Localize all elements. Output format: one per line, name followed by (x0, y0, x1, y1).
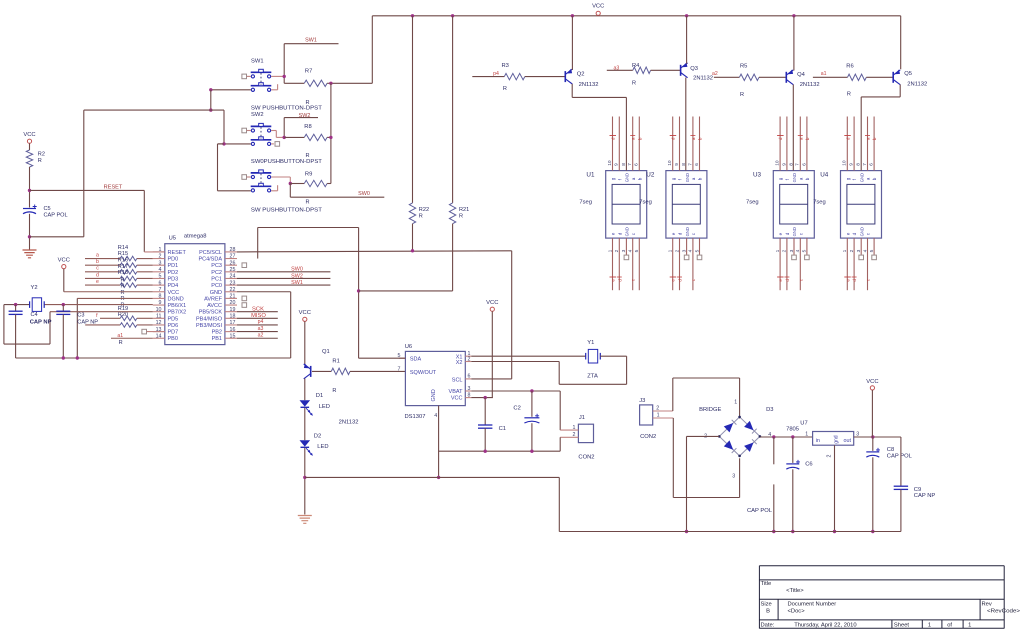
svg-text:R: R (503, 86, 507, 92)
svg-text:R: R (740, 92, 744, 98)
svg-text:U5: U5 (169, 235, 176, 241)
svg-text:Y2: Y2 (31, 285, 38, 291)
svg-text:1: 1 (805, 432, 808, 438)
svg-text:PC1: PC1 (211, 276, 222, 282)
svg-text:25: 25 (230, 267, 236, 273)
svg-text:R2: R2 (38, 151, 45, 157)
svg-text:2: 2 (656, 405, 659, 411)
svg-text:SW0: SW0 (358, 191, 370, 197)
svg-text:7: 7 (862, 163, 868, 166)
svg-text:SW1: SW1 (291, 280, 303, 286)
svg-text:Thursday, April 22, 2010: Thursday, April 22, 2010 (794, 623, 856, 629)
svg-text:8: 8 (468, 392, 471, 398)
svg-text:PC5/SCL: PC5/SCL (199, 250, 222, 256)
svg-text:4: 4 (159, 267, 162, 273)
svg-text:CAP POL: CAP POL (887, 454, 913, 460)
svg-text:d: d (678, 232, 683, 235)
svg-text:2N1132: 2N1132 (907, 82, 927, 88)
svg-text:GND: GND (431, 389, 437, 401)
svg-text:PD1: PD1 (168, 263, 179, 269)
svg-text:SCK: SCK (252, 306, 264, 312)
svg-text:GND: GND (210, 290, 222, 296)
svg-text:PB3/MOSI: PB3/MOSI (196, 323, 222, 329)
svg-text:p4: p4 (258, 319, 264, 325)
svg-text:d: d (778, 137, 783, 140)
svg-text:Title: Title (761, 581, 772, 587)
svg-text:b: b (805, 137, 810, 140)
svg-text:SCL: SCL (452, 377, 463, 383)
svg-text:SW1: SW1 (305, 38, 317, 44)
svg-text:R21: R21 (459, 207, 469, 213)
svg-text:a2: a2 (258, 332, 264, 338)
svg-text:SQW/OUT: SQW/OUT (410, 370, 437, 376)
svg-text:4: 4 (434, 413, 437, 419)
svg-text:b: b (698, 177, 703, 180)
svg-text:2: 2 (468, 356, 471, 362)
svg-text:b: b (872, 177, 877, 180)
svg-text:AVREF: AVREF (204, 296, 223, 302)
svg-text:7: 7 (687, 163, 693, 166)
svg-text:VCC: VCC (866, 379, 878, 385)
svg-text:b: b (698, 137, 703, 140)
svg-text:R15: R15 (118, 251, 128, 257)
svg-text:d: d (671, 137, 676, 140)
svg-text:GND: GND (792, 173, 797, 182)
svg-text:C3: C3 (77, 312, 84, 318)
svg-text:d: d (96, 272, 99, 278)
svg-text:C6: C6 (805, 462, 812, 468)
svg-text:12: 12 (156, 320, 162, 326)
svg-text:in: in (816, 438, 820, 444)
svg-text:U3: U3 (753, 172, 762, 179)
svg-text:U2: U2 (646, 172, 655, 179)
svg-text:3: 3 (732, 474, 735, 480)
svg-text:D1: D1 (316, 393, 323, 399)
svg-text:1: 1 (159, 247, 162, 253)
svg-text:d: d (617, 279, 622, 282)
svg-text:R7: R7 (305, 69, 312, 75)
svg-text:7: 7 (398, 366, 401, 372)
svg-text:9: 9 (614, 163, 620, 166)
svg-text:a1: a1 (821, 71, 827, 77)
svg-text:BRIDGE: BRIDGE (699, 407, 721, 413)
svg-text:R: R (847, 92, 851, 98)
svg-text:6: 6 (468, 374, 471, 380)
svg-text:of: of (947, 623, 952, 629)
svg-text:VCC: VCC (592, 4, 604, 10)
svg-text:PD7: PD7 (168, 330, 179, 336)
svg-text:Size: Size (761, 601, 772, 607)
svg-text:PC3: PC3 (211, 263, 222, 269)
svg-text:atmega8: atmega8 (184, 233, 207, 239)
svg-text:Y1: Y1 (587, 340, 594, 346)
svg-text:15: 15 (230, 333, 236, 339)
svg-text:R22: R22 (419, 207, 429, 213)
svg-text:18: 18 (230, 314, 236, 320)
svg-text:D2: D2 (314, 433, 321, 439)
svg-text:9: 9 (781, 163, 787, 166)
svg-text:Date:: Date: (761, 623, 775, 629)
svg-text:R: R (121, 284, 125, 290)
svg-text:Q2: Q2 (577, 71, 585, 77)
svg-text:5: 5 (159, 274, 162, 280)
svg-text:e: e (845, 279, 850, 282)
svg-text:R14: R14 (118, 245, 128, 251)
svg-text:CAP NP: CAP NP (30, 320, 52, 326)
svg-text:LED: LED (317, 444, 328, 450)
svg-text:7seg: 7seg (813, 199, 826, 205)
svg-text:PB7/X2: PB7/X2 (168, 310, 187, 316)
svg-text:g: g (611, 177, 616, 180)
svg-text:J1: J1 (579, 415, 585, 421)
svg-text:R5: R5 (740, 64, 747, 70)
svg-text:<Title>: <Title> (786, 588, 804, 594)
svg-text:R: R (306, 200, 310, 206)
svg-text:PC0: PC0 (211, 283, 222, 289)
svg-text:a: a (691, 177, 696, 180)
svg-text:7: 7 (159, 287, 162, 293)
svg-text:7seg: 7seg (746, 199, 759, 205)
svg-text:a: a (798, 137, 803, 140)
svg-text:GND: GND (685, 173, 690, 182)
svg-text:b: b (805, 177, 810, 180)
svg-text:Document Number: Document Number (788, 601, 837, 607)
svg-text:b: b (872, 137, 877, 140)
svg-text:28: 28 (230, 247, 236, 253)
svg-text:B: B (766, 608, 770, 614)
svg-text:e: e (611, 232, 616, 235)
svg-text:2N1132: 2N1132 (800, 82, 820, 88)
svg-text:R9: R9 (305, 172, 312, 178)
svg-text:PC4/SDA: PC4/SDA (198, 257, 222, 263)
svg-text:2N1132: 2N1132 (339, 420, 359, 426)
svg-text:C5: C5 (44, 206, 51, 212)
svg-text:VCC: VCC (299, 310, 311, 316)
svg-text:Sheet: Sheet (894, 623, 910, 629)
svg-text:R3: R3 (502, 63, 509, 69)
svg-text:VCC: VCC (451, 396, 463, 402)
svg-text:GND: GND (685, 227, 690, 236)
svg-text:GND: GND (859, 227, 864, 236)
svg-text:SW2: SW2 (251, 112, 264, 118)
svg-text:9: 9 (849, 163, 855, 166)
svg-text:e: e (778, 232, 783, 235)
svg-text:2: 2 (827, 455, 833, 458)
svg-text:R: R (459, 213, 463, 219)
svg-text:SDA: SDA (410, 356, 422, 362)
svg-text:Rev: Rev (982, 601, 992, 607)
svg-text:CON2: CON2 (640, 434, 656, 440)
svg-text:9: 9 (674, 163, 680, 166)
svg-text:PB0: PB0 (168, 336, 178, 342)
svg-text:DS1307: DS1307 (405, 414, 426, 420)
svg-text:PD2: PD2 (168, 270, 179, 276)
svg-text:16: 16 (230, 327, 236, 333)
svg-text:a: a (691, 137, 696, 140)
svg-text:R1: R1 (332, 358, 339, 364)
svg-text:23: 23 (230, 280, 236, 286)
svg-text:10: 10 (842, 160, 848, 166)
svg-text:PD5: PD5 (168, 316, 179, 322)
svg-text:a: a (631, 137, 636, 140)
svg-text:a3: a3 (258, 326, 264, 332)
svg-text:Q4: Q4 (797, 72, 806, 78)
svg-text:11: 11 (156, 314, 162, 320)
svg-text:Q3: Q3 (690, 66, 698, 72)
svg-text:8: 8 (159, 294, 162, 300)
svg-text:SW2: SW2 (291, 273, 303, 279)
svg-text:27: 27 (230, 254, 236, 260)
svg-text:PC2: PC2 (211, 270, 222, 276)
svg-text:GND: GND (625, 227, 630, 236)
svg-text:a: a (866, 137, 871, 140)
svg-text:<Doc>: <Doc> (788, 608, 806, 614)
svg-text:20: 20 (230, 300, 236, 306)
svg-text:R17: R17 (118, 264, 128, 270)
svg-text:22: 22 (230, 287, 236, 293)
svg-text:DGND: DGND (168, 296, 184, 302)
svg-text:SW2: SW2 (299, 113, 311, 119)
svg-text:1: 1 (968, 623, 971, 629)
svg-text:e: e (671, 279, 676, 282)
svg-text:21: 21 (230, 294, 236, 300)
svg-text:19: 19 (230, 307, 236, 313)
svg-text:a: a (631, 177, 636, 180)
svg-text:g: g (671, 177, 676, 180)
svg-text:a: a (866, 177, 871, 180)
svg-text:d: d (611, 137, 616, 140)
svg-text:6: 6 (801, 163, 807, 166)
svg-text:2N1132: 2N1132 (693, 76, 713, 82)
svg-text:AVCC: AVCC (207, 303, 222, 309)
svg-text:R8: R8 (304, 124, 311, 130)
svg-text:R: R (419, 213, 423, 219)
svg-text:U7: U7 (800, 421, 807, 427)
svg-text:VBAT: VBAT (449, 389, 464, 395)
svg-text:10: 10 (667, 160, 673, 166)
svg-text:out: out (844, 438, 852, 444)
svg-text:<RevCode>: <RevCode> (987, 608, 1021, 614)
svg-text:SW PUSHBUTTON-DPST: SW PUSHBUTTON-DPST (251, 106, 322, 112)
svg-text:C1: C1 (499, 426, 506, 432)
svg-text:24: 24 (230, 274, 236, 280)
svg-text:6: 6 (634, 163, 640, 166)
svg-text:R: R (306, 153, 310, 159)
svg-text:PB1: PB1 (212, 336, 222, 342)
svg-text:SW PUSHBUTTON-DPST: SW PUSHBUTTON-DPST (251, 208, 322, 214)
svg-text:R: R (121, 296, 125, 302)
svg-text:b: b (637, 137, 642, 140)
svg-text:17: 17 (230, 320, 236, 326)
svg-text:SW1: SW1 (251, 59, 264, 65)
svg-text:U6: U6 (405, 344, 412, 350)
svg-text:CAP POL: CAP POL (747, 508, 773, 514)
svg-text:J3: J3 (639, 398, 645, 404)
svg-text:b: b (96, 259, 99, 265)
svg-text:R16: R16 (118, 257, 128, 263)
svg-text:g: g (845, 177, 850, 180)
svg-text:g: g (778, 177, 783, 180)
svg-text:R: R (119, 340, 123, 346)
svg-text:14: 14 (156, 333, 162, 339)
svg-text:1: 1 (657, 413, 660, 419)
svg-text:PD6: PD6 (168, 323, 179, 329)
svg-text:10: 10 (607, 160, 613, 166)
svg-text:1: 1 (573, 425, 576, 431)
svg-text:3: 3 (468, 386, 471, 392)
svg-text:10: 10 (156, 307, 162, 313)
svg-text:p4: p4 (493, 71, 499, 77)
svg-text:PB4/MISO: PB4/MISO (196, 316, 223, 322)
svg-text:e: e (778, 279, 783, 282)
svg-text:U4: U4 (820, 172, 829, 179)
svg-text:ZTA: ZTA (587, 373, 598, 379)
svg-text:7805: 7805 (786, 427, 799, 433)
svg-text:C8: C8 (887, 447, 894, 453)
svg-text:e: e (671, 232, 676, 235)
svg-text:7: 7 (795, 163, 801, 166)
svg-text:R: R (121, 277, 125, 283)
svg-text:d: d (845, 137, 850, 140)
svg-text:gnd: gnd (833, 435, 839, 444)
svg-text:RESET: RESET (168, 250, 187, 256)
svg-text:d: d (852, 232, 857, 235)
svg-text:LED: LED (319, 404, 330, 410)
svg-text:6: 6 (159, 280, 162, 286)
svg-text:GND: GND (859, 173, 864, 182)
svg-text:C9: C9 (914, 487, 921, 493)
svg-text:D3: D3 (766, 407, 773, 413)
svg-text:2N1132: 2N1132 (579, 82, 599, 88)
svg-text:d: d (617, 232, 622, 235)
svg-text:26: 26 (230, 260, 236, 266)
svg-text:a1: a1 (117, 333, 123, 339)
svg-text:d: d (852, 279, 857, 282)
svg-text:2: 2 (573, 432, 576, 438)
svg-text:Q1: Q1 (322, 349, 330, 355)
svg-text:7seg: 7seg (579, 199, 592, 205)
svg-text:d: d (678, 279, 683, 282)
svg-text:U1: U1 (586, 172, 595, 179)
svg-text:1: 1 (928, 623, 931, 629)
svg-text:e: e (845, 232, 850, 235)
svg-text:R4: R4 (632, 63, 640, 69)
svg-text:a: a (96, 252, 99, 258)
svg-text:d: d (785, 279, 790, 282)
svg-text:PB5/SCK: PB5/SCK (199, 310, 223, 316)
svg-text:R18: R18 (118, 270, 128, 276)
svg-text:CON2: CON2 (578, 455, 594, 461)
svg-text:CAP NP: CAP NP (914, 493, 936, 499)
svg-text:VCC: VCC (23, 132, 35, 138)
svg-text:GND: GND (792, 227, 797, 236)
svg-text:VCC: VCC (58, 258, 70, 264)
svg-text:SW0: SW0 (291, 267, 303, 273)
svg-text:GND: GND (625, 173, 630, 182)
svg-text:PB2: PB2 (212, 330, 222, 336)
svg-text:CAP NP: CAP NP (77, 320, 98, 326)
svg-text:VCC: VCC (486, 300, 498, 306)
svg-text:2: 2 (159, 254, 162, 260)
svg-text:PB6/X1: PB6/X1 (168, 303, 187, 309)
svg-text:6: 6 (869, 163, 875, 166)
svg-text:R: R (632, 80, 636, 86)
svg-text:10: 10 (775, 160, 781, 166)
svg-text:R: R (121, 290, 125, 296)
svg-text:3: 3 (159, 260, 162, 266)
svg-text:R6: R6 (846, 63, 853, 69)
svg-text:R19: R19 (118, 306, 128, 312)
svg-text:a: a (798, 177, 803, 180)
svg-text:a3: a3 (614, 65, 620, 71)
svg-text:RESET: RESET (104, 184, 123, 190)
svg-text:7seg: 7seg (639, 199, 652, 205)
svg-text:b: b (637, 177, 642, 180)
svg-text:C2: C2 (513, 406, 520, 412)
svg-text:c: c (96, 266, 99, 272)
svg-text:R: R (332, 388, 336, 394)
svg-text:R: R (38, 158, 42, 164)
svg-text:a2: a2 (712, 71, 718, 77)
svg-text:CAP POL: CAP POL (44, 213, 68, 219)
svg-text:1: 1 (734, 400, 737, 406)
svg-text:6: 6 (694, 163, 700, 166)
svg-text:PD3: PD3 (168, 276, 179, 282)
svg-text:X2: X2 (456, 360, 463, 366)
svg-text:SW0PUSHBUTTON-DPST: SW0PUSHBUTTON-DPST (251, 159, 322, 165)
svg-text:7: 7 (627, 163, 633, 166)
svg-text:C4: C4 (31, 312, 38, 318)
svg-text:PD0: PD0 (168, 257, 179, 263)
svg-text:VCC: VCC (168, 290, 180, 296)
svg-text:9: 9 (159, 300, 162, 306)
svg-text:Q5: Q5 (904, 71, 912, 77)
svg-text:e: e (611, 279, 616, 282)
svg-text:d: d (785, 232, 790, 235)
svg-text:e: e (96, 279, 99, 285)
svg-text:PD4: PD4 (168, 283, 179, 289)
